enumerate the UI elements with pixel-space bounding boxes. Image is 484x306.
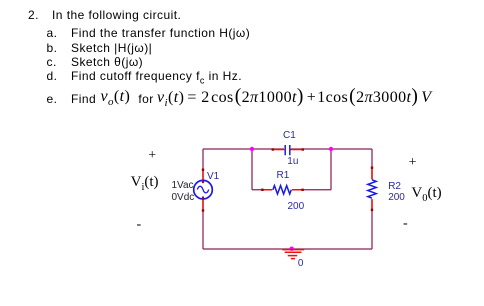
label R2 value 200 xyxy=(388,193,405,203)
label ground net 0 xyxy=(298,259,304,269)
label C1 value 1u xyxy=(287,157,298,167)
label output polarity minus xyxy=(403,217,408,230)
wire left vertical (through V1) xyxy=(202,149,204,249)
resistor R2 pin stubs (pin 1 top, pin 2 bottom) xyxy=(371,168,373,211)
wire R1 branch right vertical xyxy=(330,149,332,190)
junction node at C1/R1 left split xyxy=(250,147,254,151)
wire R1 branch left vertical xyxy=(251,149,253,190)
label V1 reference designator xyxy=(207,172,219,182)
voltage source V1 pin stubs (pin + top, pin - bottom) xyxy=(202,170,204,211)
label R1 reference designator xyxy=(277,171,290,181)
wire bottom (V1 minus to ground to R2) xyxy=(203,248,372,250)
label C1 reference designator xyxy=(283,131,296,141)
junction node at C1/R1 right merge xyxy=(329,147,333,151)
resistor R1 zigzag xyxy=(272,185,292,196)
voltage source V1 pin tips on body xyxy=(202,181,204,183)
ground symbol (net 0) xyxy=(282,250,304,259)
resistor R1 pin stubs (pin 1 left, pin 2 right) xyxy=(262,189,303,191)
capacitor C1 pin-end dots xyxy=(272,148,274,150)
label input polarity minus xyxy=(137,218,142,231)
label R1 value 200 xyxy=(288,202,305,212)
wire top (V1 plus to C1 and R2) xyxy=(203,148,372,150)
resistor R2 zigzag xyxy=(367,180,378,200)
voltage source V1 pin-end dots xyxy=(202,169,204,171)
wire right vertical (through R2) xyxy=(371,149,373,249)
label output polarity plus xyxy=(409,156,417,169)
voltage source V1 sine-wave mark xyxy=(197,186,208,193)
label V1 value 1Vac xyxy=(172,181,194,191)
capacitor C1 plates xyxy=(285,145,290,155)
label input voltage Vi(t) xyxy=(131,176,159,194)
label V1 value 0Vdc xyxy=(172,193,195,203)
label input polarity plus xyxy=(148,149,156,162)
problem text xyxy=(28,9,39,21)
wire R1 branch horizontal xyxy=(252,189,331,191)
voltage source V1 body circle xyxy=(194,180,213,199)
junction node at ground tap xyxy=(290,247,294,251)
label output voltage Vo(t) xyxy=(411,187,441,205)
resistor R2 pin-end dots xyxy=(371,167,373,169)
capacitor C1 pin stubs (pin 1 left, pin 2 right) xyxy=(284,144,291,155)
label R2 reference designator xyxy=(388,182,401,192)
resistor R1 pin-end dots xyxy=(261,189,263,191)
